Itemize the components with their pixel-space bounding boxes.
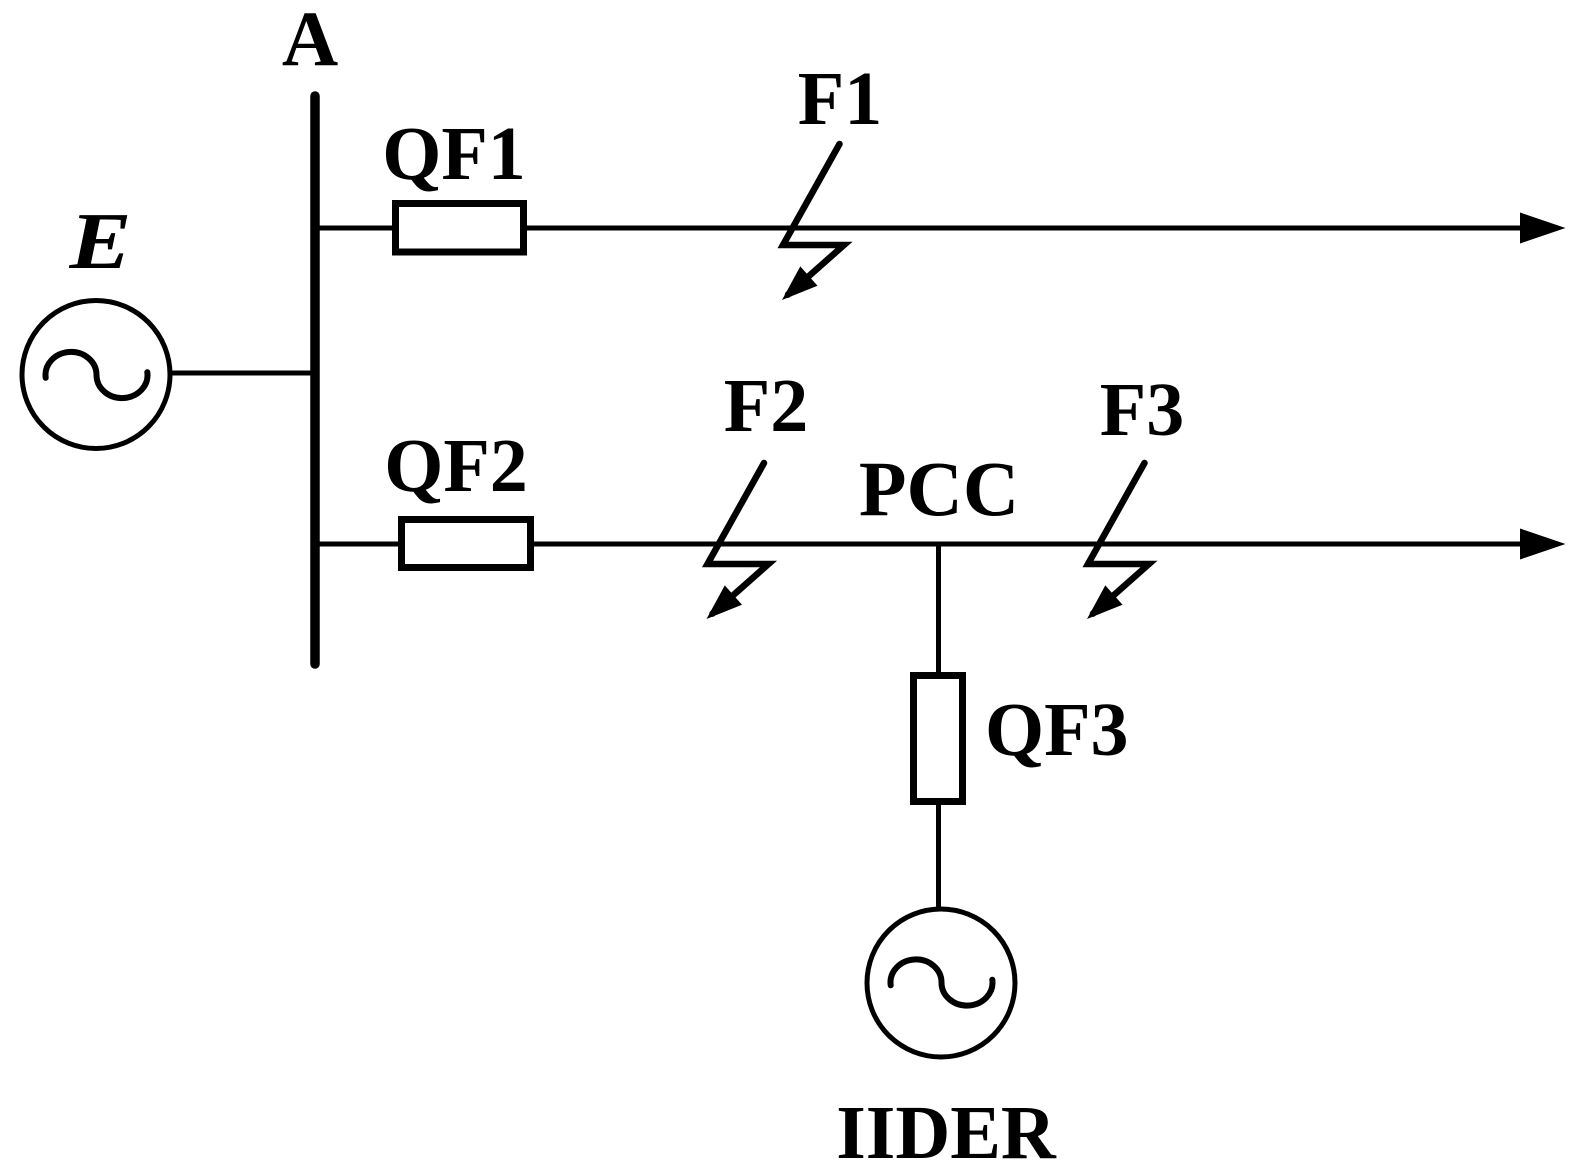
svg-text:F1: F1 (798, 57, 882, 141)
svg-text:QF3: QF3 (985, 688, 1129, 772)
wire PCC to QF3 (936, 544, 941, 675)
bus A (310, 96, 320, 664)
breaker QF1 (396, 204, 524, 253)
breaker QF3 (914, 676, 963, 802)
svg-text:E: E (68, 198, 131, 286)
arrowhead feeder 1 (1520, 213, 1566, 244)
svg-text:QF2: QF2 (384, 424, 528, 508)
svg-text:QF1: QF1 (382, 112, 526, 196)
source E (22, 301, 170, 449)
source IIDER (867, 909, 1015, 1057)
fault F3 (1087, 463, 1149, 619)
fault F1 (782, 144, 844, 300)
wire feeder 2 (315, 542, 1521, 547)
svg-text:F2: F2 (724, 364, 808, 448)
svg-text:F3: F3 (1100, 368, 1184, 452)
svg-text:A: A (282, 0, 338, 82)
wire QF3 to IIDER (936, 803, 941, 909)
wire E to bus (170, 371, 315, 376)
arrowhead feeder 2 (1520, 529, 1566, 560)
svg-text:PCC: PCC (859, 445, 1019, 532)
fault F2 (707, 463, 769, 619)
breaker QF2 (402, 520, 531, 568)
svg-text:IIDER: IIDER (836, 1091, 1057, 1175)
wire feeder 1 (315, 226, 1521, 231)
